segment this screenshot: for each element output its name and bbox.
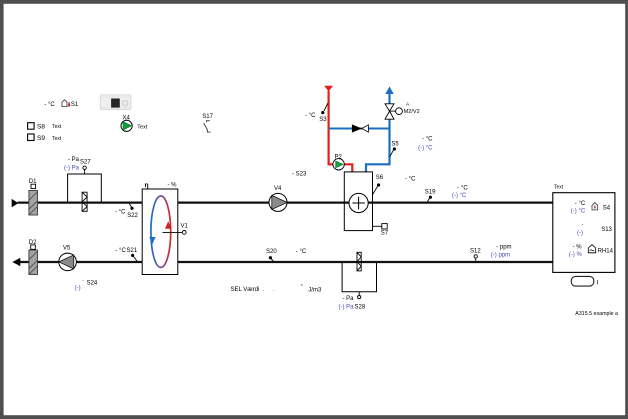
hot water supply pipe (red) [324, 86, 352, 172]
filter F1 supply [82, 192, 87, 211]
svg-text:S8: S8 [37, 124, 45, 131]
svg-text:S1: S1 [71, 102, 79, 108]
svg-text:Text: Text [554, 185, 564, 191]
svg-text:(-) Pa: (-) Pa [339, 305, 355, 311]
svg-text:- Pa: - Pa [342, 296, 354, 302]
supply air inlet arrow [12, 199, 19, 207]
svg-text:- %: - % [168, 182, 178, 188]
switch contact S17 [202, 114, 213, 132]
svg-text:- °C: - °C [405, 177, 416, 183]
svg-text:D2: D2 [29, 240, 37, 246]
temperature sensor S3 [305, 103, 328, 123]
svg-text:J/m3: J/m3 [308, 287, 322, 293]
heat exchanger box [142, 182, 178, 275]
svg-text:I: I [597, 280, 599, 287]
svg-text:A: A [406, 102, 409, 107]
wire supply air duct [18, 202, 553, 204]
room humidity display RH14 [569, 245, 614, 258]
svg-text:- %: - % [573, 245, 583, 251]
pressure sensor S27 measuring box [64, 157, 101, 202]
wheel actuator V1 [163, 223, 189, 234]
svg-text:(-): (-) [577, 230, 583, 236]
mode indicator pill [571, 276, 598, 286]
svg-text:S7: S7 [381, 231, 389, 237]
temperature sensor S21 [115, 248, 137, 261]
outside temperature S1 [44, 100, 79, 108]
svg-text:- °C: - °C [305, 113, 316, 119]
room setpoint S13 [577, 222, 613, 236]
svg-text:- S23: - S23 [292, 172, 307, 178]
svg-text:S12: S12 [470, 249, 481, 255]
temperature sensor S5 [390, 137, 433, 157]
svg-text:(-) %: (-) % [569, 252, 583, 258]
temperature sensor S20 [266, 249, 307, 262]
sensor S7 [373, 224, 389, 237]
heating coil [344, 172, 372, 231]
svg-text:- °C: - °C [422, 137, 433, 143]
svg-text:S28: S28 [355, 304, 366, 310]
SEL value line [231, 284, 322, 293]
temperature sensor S22 [115, 204, 139, 220]
svg-text:S20: S20 [266, 249, 277, 255]
svg-text:- ppm: - ppm [496, 245, 511, 251]
svg-text:S27: S27 [80, 160, 91, 166]
svg-text:(-): (-) [75, 286, 81, 292]
filter F2 extract [357, 252, 361, 271]
room temperature display S4 [571, 201, 611, 215]
svg-text:S6: S6 [376, 175, 384, 181]
svg-text:- °C: - °C [115, 210, 126, 216]
start button X4 [121, 115, 148, 131]
svg-text:- °C: - °C [575, 201, 586, 207]
svg-text:S19: S19 [425, 189, 436, 195]
svg-text:A315.5 example a: A315.5 example a [575, 311, 618, 317]
bypass pipe with check valve [329, 124, 390, 132]
damper D2 [29, 240, 38, 275]
svg-text:V5: V5 [63, 246, 71, 252]
svg-text:S24: S24 [87, 280, 98, 286]
svg-text:V4: V4 [274, 186, 282, 192]
svg-text:°: ° [301, 284, 303, 290]
pump P2 [333, 155, 344, 170]
return water pipe (blue) [366, 87, 394, 172]
checkbox S8 [28, 123, 62, 131]
exhaust air outlet arrow [12, 258, 20, 266]
svg-text:S21: S21 [127, 248, 138, 254]
room box [553, 185, 615, 273]
svg-text:(-) °C: (-) °C [452, 193, 467, 199]
svg-text:(-) ppm: (-) ppm [491, 252, 510, 258]
svg-text:D1: D1 [29, 179, 37, 185]
svg-text:Text: Text [52, 136, 62, 142]
mode switch control [100, 95, 131, 110]
svg-text:- °C: - °C [115, 248, 126, 254]
svg-text:S22: S22 [127, 213, 138, 219]
damper D1 [29, 179, 38, 215]
svg-text:- °C: - °C [457, 186, 468, 192]
rotary wheel [151, 196, 171, 267]
setpoint S24 labels [75, 278, 98, 292]
temperature sensor S19 [425, 186, 469, 203]
svg-text:P2: P2 [335, 155, 343, 161]
svg-text:- °C: - °C [44, 102, 55, 108]
svg-text:η: η [145, 182, 149, 189]
svg-text:.: . [263, 287, 264, 293]
svg-text:S3: S3 [319, 117, 327, 123]
svg-text:.: . [273, 287, 274, 293]
temperature sensor S6 [373, 175, 416, 194]
wire extract air duct [20, 261, 553, 263]
svg-text:Text: Text [52, 124, 62, 130]
svg-text:Text: Text [137, 124, 148, 130]
svg-text:V1: V1 [181, 223, 189, 229]
fan V4 [269, 186, 287, 211]
svg-text:RH14: RH14 [598, 248, 614, 254]
svg-text:S5: S5 [391, 141, 399, 147]
svg-text:S9: S9 [37, 135, 45, 142]
sensor S12 [470, 245, 512, 261]
svg-text:(-) °C: (-) °C [571, 209, 586, 215]
fan V5 [59, 246, 77, 271]
svg-text:SEL Værdi: SEL Værdi [231, 287, 260, 293]
valve M2/V2 [385, 102, 420, 120]
svg-text:(-) °C: (-) °C [418, 145, 433, 151]
svg-text:(-) Pa: (-) Pa [64, 166, 80, 172]
svg-text:M2/V2: M2/V2 [404, 109, 420, 115]
checkbox S9 [28, 134, 62, 142]
pressure sensor S28 measuring box [339, 263, 377, 311]
svg-text:S13: S13 [601, 227, 612, 233]
svg-text:- °C: - °C [296, 249, 307, 255]
svg-text:- Pa: - Pa [68, 157, 80, 163]
svg-text:S17: S17 [202, 114, 213, 120]
svg-text:S4: S4 [603, 205, 611, 211]
